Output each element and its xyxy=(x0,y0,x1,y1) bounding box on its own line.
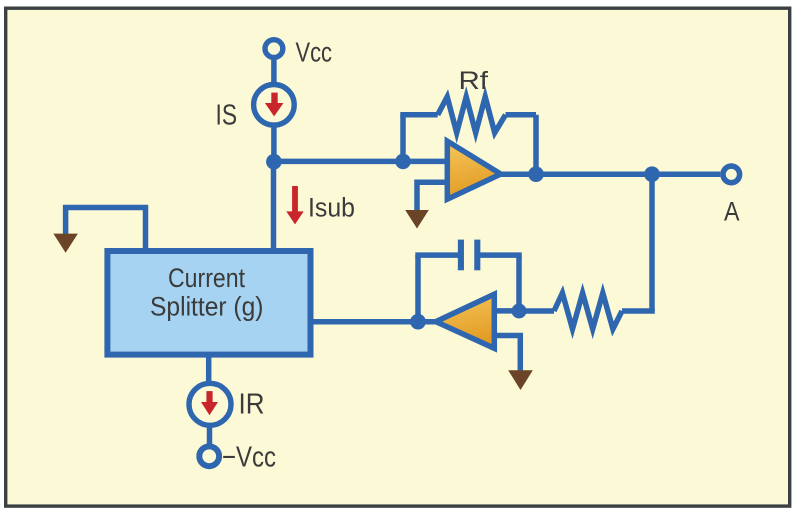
node at U2 output xyxy=(410,314,426,330)
current source IR xyxy=(189,383,231,425)
wire feedback right vertical xyxy=(533,115,539,174)
svg-text:Rf: Rf xyxy=(459,67,489,95)
resistor Rf xyxy=(438,97,506,133)
wire capacitor right vertical xyxy=(516,255,522,314)
ground under U1 xyxy=(405,210,429,229)
wire to resistor R2 xyxy=(622,311,652,314)
ground left of splitter xyxy=(53,234,78,253)
svg-text:Isub: Isub xyxy=(308,192,355,222)
svg-text:Current: Current xyxy=(168,263,246,293)
terminal A xyxy=(723,166,740,183)
ground under U2 xyxy=(508,370,533,390)
current splitter box xyxy=(107,251,310,355)
wire feedback left vertical xyxy=(400,115,406,163)
wire Vcc stub xyxy=(271,58,277,86)
wire node A vertical xyxy=(649,174,655,311)
wire R2 to node xyxy=(519,308,554,314)
wire IS to node xyxy=(271,123,277,162)
current source IS xyxy=(254,85,295,126)
terminal minus Vcc xyxy=(199,446,219,466)
resistor R2 xyxy=(554,293,622,329)
svg-text:Vcc: Vcc xyxy=(296,37,333,68)
wire Isub vertical to splitter box xyxy=(271,162,277,250)
wire splitter top-left to ground xyxy=(66,208,146,251)
wire capacitor right horizontal xyxy=(477,252,521,258)
node at feedback tap xyxy=(395,154,411,170)
IS arrow xyxy=(265,93,284,117)
op-amp U1 xyxy=(447,141,501,199)
Isub arrow xyxy=(286,186,303,224)
wire capacitor left horizontal xyxy=(415,252,461,258)
node at U1 output xyxy=(528,166,544,182)
svg-text:Splitter (g): Splitter (g) xyxy=(150,292,264,322)
capacitor C1 plates xyxy=(461,240,477,271)
wire IR to minus Vcc terminal xyxy=(207,426,213,446)
wire U1 output to terminal A xyxy=(501,171,721,177)
op-amp U2 xyxy=(436,294,495,348)
svg-text:IR: IR xyxy=(239,389,265,421)
wire U1 inverting input to ground xyxy=(417,182,447,211)
IR arrow xyxy=(201,391,218,415)
wire capacitor left vertical xyxy=(415,255,421,322)
wire U2 output to splitter box xyxy=(310,319,437,325)
node A junction xyxy=(644,166,660,182)
svg-text:A: A xyxy=(724,197,740,227)
wire main horizontal to op-amp U1 input xyxy=(274,159,448,165)
wire feedback top left xyxy=(400,112,437,118)
wire splitter bottom to IR xyxy=(206,356,212,382)
node at U2 inverting input xyxy=(512,304,527,319)
terminal Vcc xyxy=(265,40,283,58)
svg-text:−Vcc: −Vcc xyxy=(222,441,276,473)
wire feedback top right xyxy=(506,112,537,118)
node at IS junction xyxy=(266,154,282,170)
wire U2 lower input to ground xyxy=(494,336,520,372)
wire U2 upper input stub xyxy=(494,308,519,314)
svg-text:IS: IS xyxy=(216,99,238,131)
